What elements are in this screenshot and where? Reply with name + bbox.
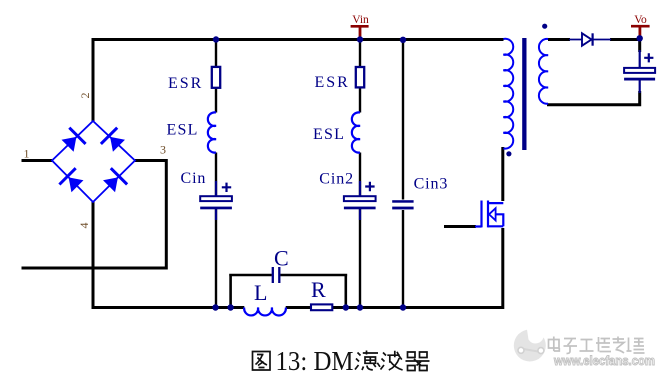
capacitor Cin2 [344, 181, 376, 220]
inductor ESL2 [352, 112, 360, 152]
watermark CJK text [549, 337, 645, 354]
resistor ESR2 [356, 67, 364, 87]
transistor Q1 MOSFET [475, 201, 503, 228]
caption 图13: DM滤波器 [253, 352, 271, 371]
transformer core [522, 38, 526, 150]
node dot RLC left [227, 304, 233, 310]
power port Vo [631, 14, 650, 39]
svg-text:Vin: Vin [352, 14, 369, 26]
inductor L (bottom filter) [244, 308, 286, 316]
svg-text:1: 1 [24, 147, 30, 161]
bridge diode D-BR [103, 168, 127, 192]
svg-text:13: DM: 13: DM [276, 346, 354, 376]
svg-text:R: R [311, 277, 326, 302]
node dot RLC right [343, 304, 349, 310]
bridge rectifier diamond [52, 121, 135, 202]
svg-text:ESR: ESR [315, 74, 350, 91]
wire primary to drain [501, 147, 504, 201]
wire bridge bottom [92, 201, 95, 309]
svg-text:C: C [274, 246, 289, 271]
primary polarity dot [506, 151, 511, 156]
wire AC lead 1 [22, 159, 53, 162]
bridge diode D-TL [62, 128, 86, 152]
inductor ESL1 [208, 112, 216, 152]
wire secondary top [548, 40, 641, 53]
power port Vin [351, 14, 369, 40]
glyph 波 [381, 351, 403, 370]
capacitor Cin [200, 181, 232, 220]
wire Cin3 branch [402, 40, 404, 309]
svg-text:ESL: ESL [167, 122, 199, 139]
wire Cin2 branch [359, 40, 361, 309]
capacitor Cout [624, 50, 655, 93]
secondary polarity dot [542, 24, 547, 29]
watermark logo [514, 327, 546, 361]
node dot bottom Cin3 [400, 304, 406, 310]
wire bottom rail [92, 306, 505, 309]
wire source to rail [501, 228, 504, 309]
svg-text:Cin3: Cin3 [414, 175, 449, 192]
transformer T1 primary [503, 39, 513, 149]
svg-text:ESL: ESL [313, 126, 345, 143]
wire Cin branch [215, 38, 217, 309]
svg-text:2: 2 [78, 93, 92, 99]
wire AC lead 3 and return [22, 159, 168, 268]
svg-text:3: 3 [160, 143, 166, 157]
glyph 滤 [355, 351, 380, 371]
node dot top Cin3 [400, 37, 406, 43]
bridge diode D-TR [101, 128, 125, 152]
node dot bottom Cin [212, 304, 218, 310]
resistor R (bottom filter) [311, 304, 332, 310]
glyph 图 [253, 352, 271, 371]
svg-text:4: 4 [77, 223, 91, 229]
transformer T1 secondary [539, 39, 548, 104]
node dot bottom Cin2 [357, 304, 363, 310]
capacitor Cin3 [392, 200, 413, 209]
wire gate stub [444, 225, 476, 228]
bridge diode D-BL [59, 168, 83, 192]
glyph 器 [406, 352, 430, 371]
wire RLC box [229, 274, 347, 306]
svg-text:Vo: Vo [634, 14, 647, 26]
node dot Vo [637, 35, 643, 41]
svg-text:Cin: Cin [181, 170, 207, 187]
node dot Vin [357, 36, 363, 42]
resistor ESR1 [212, 67, 220, 88]
svg-text:L: L [254, 280, 267, 305]
wire output bottom [547, 91, 641, 106]
diode D output [569, 33, 611, 45]
wire bridge top [92, 38, 95, 122]
svg-text:www.elecfans.com: www.elecfans.com [553, 354, 655, 368]
wire top rail [93, 38, 504, 41]
svg-text:ESR: ESR [168, 75, 203, 92]
node dot top Cin [213, 36, 219, 42]
capacitor C (bottom filter) [273, 267, 280, 283]
svg-text:Cin2: Cin2 [319, 170, 354, 187]
